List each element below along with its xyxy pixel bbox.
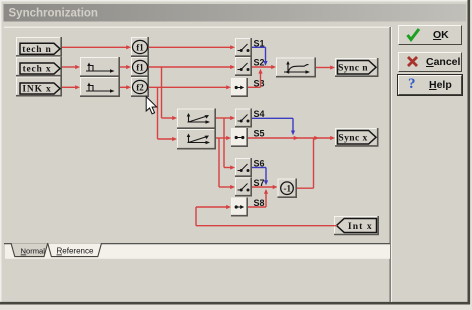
wire G1 to S4 [216,117,232,119]
wire f1 to S2 [149,66,232,68]
svg-text:Sync x: Sync x [338,133,367,144]
gain block -1 [278,179,298,199]
wire G2 to S5 [216,137,228,139]
button Cancel [398,52,462,72]
svg-text:Normal: Normal [21,247,46,256]
svg-text:S4: S4 [254,109,265,119]
wire branch f2 to G2 [157,87,159,139]
port INK x [20,83,60,95]
mouse cursor [146,97,156,114]
wire S5 to Sync x [248,137,332,139]
tab Reference [48,243,102,256]
svg-text:S2: S2 [254,57,265,67]
port Int x [334,216,379,235]
wire curve block to Sync n [316,67,332,69]
sample-hold block T2 [80,77,120,97]
wire T1 to f1 [120,66,128,68]
port tech n [20,43,60,55]
wire S1 to junction (blue) [252,46,266,48]
wire branch G2 to S7 [218,138,220,187]
wire S4 to junction (blue) [252,117,293,119]
switch S1 [235,38,252,57]
wire Int x to S8 [196,225,337,227]
ramp block G1 [177,109,216,130]
function block f1 row2 [131,57,149,77]
tab strip background [5,244,390,259]
wire f1 to S1 [149,46,232,48]
svg-text:Synchronization: Synchronization [9,8,98,20]
svg-text:tech x: tech x [23,65,52,75]
wire INK x to T2 [62,86,77,88]
ramp block G2 [177,129,216,150]
wire gain -1 to Sync x line [297,187,314,189]
sample-hold block T1 [80,57,120,77]
switch S7 [235,178,252,197]
svg-text:Int x: Int x [348,221,373,232]
switch S3 [231,78,248,97]
output port Sync x [335,128,379,147]
tab control right edge [389,27,391,302]
curve block (limiter) [276,58,316,78]
svg-text:-1: -1 [284,183,292,193]
function block f2 row3 [131,77,149,97]
output port Sync n [335,58,379,77]
wire Int x riser [195,207,197,226]
port column block tech n [16,37,62,57]
switch S8 [231,198,248,217]
function block f1 row1 [131,37,149,57]
svg-text:f1: f1 [136,42,144,52]
tab Normal (selected) [11,243,48,256]
svg-text:Sync n: Sync n [338,63,368,74]
svg-text:INK x: INK x [22,85,51,95]
switch S4 [235,109,252,128]
wire tech x to T1 [62,66,77,68]
wire S3 to junction [248,86,261,88]
svg-text:tech n: tech n [22,45,51,55]
switch S5 [231,128,248,147]
wire branch G1 to S6 [223,118,225,168]
tab control top edge [4,26,390,28]
port column block tech x [16,57,62,77]
port tech x [20,63,60,75]
tab strip top line [4,243,390,245]
svg-text:S5: S5 [254,128,265,138]
button OK [398,25,462,45]
wire T2 to f2 [120,86,128,88]
switch S2 [235,57,252,76]
wire f2 to S3 [149,86,228,88]
svg-text:f1: f1 [136,62,144,72]
wire tech n to f1 [62,46,128,48]
svg-text:f2: f2 [136,82,144,92]
svg-text:Reference: Reference [57,247,94,256]
wire branch f1 to G1 [161,67,163,118]
wire S7 to gain -1 [252,186,274,188]
wire S6 to junction (blue) [252,167,266,169]
button Help [398,75,462,96]
switch S6 [235,158,252,177]
port column block INK x [16,77,62,97]
wire S2 to curve block [252,66,273,68]
wire S8 up to junction [248,206,266,208]
